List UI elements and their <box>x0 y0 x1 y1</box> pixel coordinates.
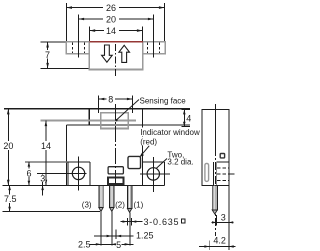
svg-text:1.25: 1.25 <box>136 230 154 240</box>
wing top gray extension <box>25 161 66 163</box>
left mounting hole <box>72 167 84 179</box>
hollow up arrow (receiver) <box>119 45 130 62</box>
dim line 4 <box>183 110 185 127</box>
svg-text:3-0.635: 3-0.635 <box>144 217 180 227</box>
dim line 3 (side) <box>212 221 234 223</box>
dim line 1.25 <box>94 235 134 237</box>
wire: dim 26 extension left <box>65 3 67 41</box>
svg-text:2.5: 2.5 <box>78 240 91 250</box>
svg-text:(3): (3) <box>82 201 92 210</box>
redraw hole centerline over wing <box>77 38 79 58</box>
body right edge extension down <box>228 185 230 250</box>
right wing top edge <box>143 161 165 163</box>
label 14 <box>104 26 119 35</box>
hidden hole dashed lines left wing <box>73 42 160 53</box>
arrowheads top dims <box>66 6 164 32</box>
label 3 (side) <box>220 214 226 222</box>
front view centerline <box>114 104 116 184</box>
dim line 20 <box>7 109 9 186</box>
inner edge line <box>212 162 214 185</box>
svg-text:(1): (1) <box>134 201 144 210</box>
dim 3-0.635 ticks <box>126 218 128 225</box>
dim line 20 <box>78 18 153 20</box>
dim line 4.2 <box>199 246 236 248</box>
label 4.2 <box>213 236 228 244</box>
top view centerline <box>115 44 117 77</box>
svg-text:(red): (red) <box>140 137 157 146</box>
dim line 14 <box>90 30 143 32</box>
svg-text:14: 14 <box>41 141 51 151</box>
wire: dim 14 extension right <box>142 27 144 48</box>
dim 4 ticks <box>182 109 191 111</box>
wire: dim 20 extension right (hole centerline) <box>153 15 155 58</box>
body left edge <box>65 125 67 185</box>
pin tip extension line <box>2 210 100 212</box>
optical axis gray line (14-dim top extension) <box>40 119 136 121</box>
hidden hole dashed top <box>217 167 229 169</box>
svg-text:Indicator window: Indicator window <box>140 128 200 137</box>
leader Two 3.2 dia <box>156 159 167 169</box>
dim 8 extension left <box>98 96 100 113</box>
svg-text:6: 6 <box>26 168 31 178</box>
left wing top edge <box>66 161 90 163</box>
hole centerline dashed + solid ext <box>217 173 229 175</box>
right wing inner edge <box>142 162 144 186</box>
hollow down arrow (emitter) <box>102 45 113 62</box>
gray sensing slot <box>205 163 209 181</box>
tower left edge <box>88 109 90 125</box>
sensing face rect <box>101 113 129 129</box>
right mounting hole <box>147 168 159 180</box>
svg-text:3: 3 <box>221 213 226 223</box>
dim 7 extension bottom <box>40 68 88 70</box>
dim line 26 <box>66 7 164 9</box>
indicator leader <box>142 146 150 155</box>
svg-text:7.5: 7.5 <box>4 194 17 204</box>
dim 7 extension top <box>40 41 65 43</box>
body right edge (wing outer) <box>164 162 166 186</box>
pin (3) <box>99 185 103 211</box>
label 7 <box>44 50 52 59</box>
top view central block <box>89 42 143 70</box>
dim line 3-0.635 <box>121 221 143 223</box>
body top edge + 4-dim bottom extension <box>66 124 190 126</box>
side view outer rect <box>202 109 229 185</box>
svg-text:4.2: 4.2 <box>213 236 226 246</box>
label 20 <box>103 15 119 24</box>
tower right edge / body right side above wing <box>142 109 144 162</box>
svg-text:Sensing face: Sensing face <box>140 96 187 105</box>
svg-text:20: 20 <box>106 15 116 25</box>
dim line 6 <box>28 162 30 186</box>
dim line 2.5 / 5 <box>89 243 116 245</box>
boss top edge <box>217 161 229 163</box>
sensing face leader <box>116 100 139 121</box>
body bottom edge (extended left for dims) <box>2 184 164 186</box>
pin (2) <box>110 185 114 211</box>
svg-text:26: 26 <box>106 3 116 13</box>
hidden hole dashed lines right wing <box>147 42 149 53</box>
pin (1) <box>127 185 131 212</box>
svg-text:5: 5 <box>116 240 121 250</box>
wire: dim 26 extension right <box>164 3 166 41</box>
side small square (indicator) <box>220 154 224 158</box>
label 8 <box>107 95 115 104</box>
red top edge of central block <box>89 41 143 43</box>
dim line 14 <box>45 120 47 185</box>
boss left edge <box>216 162 218 185</box>
side view centerline <box>215 104 217 148</box>
text Indicator window (red) <box>140 128 201 136</box>
side dim 3 extension <box>215 215 217 226</box>
dim 4.2 extension left <box>208 241 210 251</box>
svg-text:4: 4 <box>186 114 191 124</box>
top view wing bar <box>66 42 165 54</box>
svg-text:(2): (2) <box>115 201 125 210</box>
side pins <box>212 185 217 210</box>
wire: dim 14 extension left <box>89 27 91 47</box>
hidden hole dashed bottom <box>217 179 229 181</box>
indicator window square <box>128 156 141 168</box>
left wing boss inner corner <box>67 162 69 186</box>
left wing inner edge <box>89 162 91 186</box>
tower top edge + 20-dim left extension + 4-dim extension <box>4 108 190 110</box>
svg-text:3: 3 <box>40 173 45 183</box>
wire: dim 20 extension left (hole centerline) <box>77 15 79 58</box>
svg-text:3.2 dia.: 3.2 dia. <box>167 158 193 167</box>
svg-text:14: 14 <box>106 26 116 36</box>
pin extension lines <box>100 212 102 246</box>
center small rect (molding mark) <box>108 167 123 174</box>
dim line 8 <box>99 98 133 100</box>
center lower rect <box>108 177 124 184</box>
svg-text:20: 20 <box>3 141 13 151</box>
dim line 3 <box>42 173 44 195</box>
dim line 7.5 <box>9 185 11 211</box>
dim 8 extension right <box>132 96 134 113</box>
svg-text:7: 7 <box>45 50 50 60</box>
label 26 <box>103 3 119 12</box>
dim line 7 <box>47 42 49 69</box>
svg-text:8: 8 <box>108 95 113 105</box>
